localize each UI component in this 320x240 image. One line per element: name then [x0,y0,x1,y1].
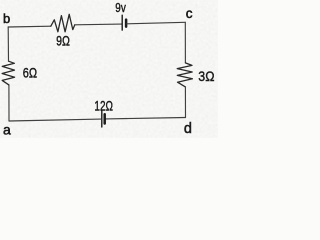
svg-text:a: a [3,121,11,137]
resistor 3ohm zigzag [177,63,192,87]
wire a up to resistor 6ohm [8,85,10,121]
svg-text:d: d [184,121,192,137]
wire resistor 6ohm to node b [7,27,9,61]
resistor 9ohm zigzag [51,14,75,32]
wire resistor 3ohm to node d [184,87,186,118]
svg-text:6Ω: 6Ω [23,65,37,80]
svg-text:c: c [186,6,193,21]
battery 12 long plate [101,111,103,127]
svg-text:9Ω: 9Ω [56,34,70,49]
svg-text:9v: 9v [115,1,126,15]
svg-text:12Ω: 12Ω [94,98,113,113]
wire b to resistor 9ohm (top left segment) [8,25,51,28]
resistor 6ohm zigzag [2,61,15,85]
svg-text:b: b [3,11,10,26]
battery 9v long plate [121,15,123,30]
wire d to battery 12 (bottom right segment) [106,118,186,119]
wire resistor to battery 9v [75,23,122,26]
battery 9v short plate [125,20,128,27]
wire battery 12 to node a (bottom left segment) [9,119,101,121]
paper scan noise [0,0,218,138]
svg-text:3Ω: 3Ω [198,69,214,85]
wire c down to resistor 3ohm [184,22,186,63]
wire battery to node c [127,22,186,24]
battery 12 short plate [103,114,106,123]
